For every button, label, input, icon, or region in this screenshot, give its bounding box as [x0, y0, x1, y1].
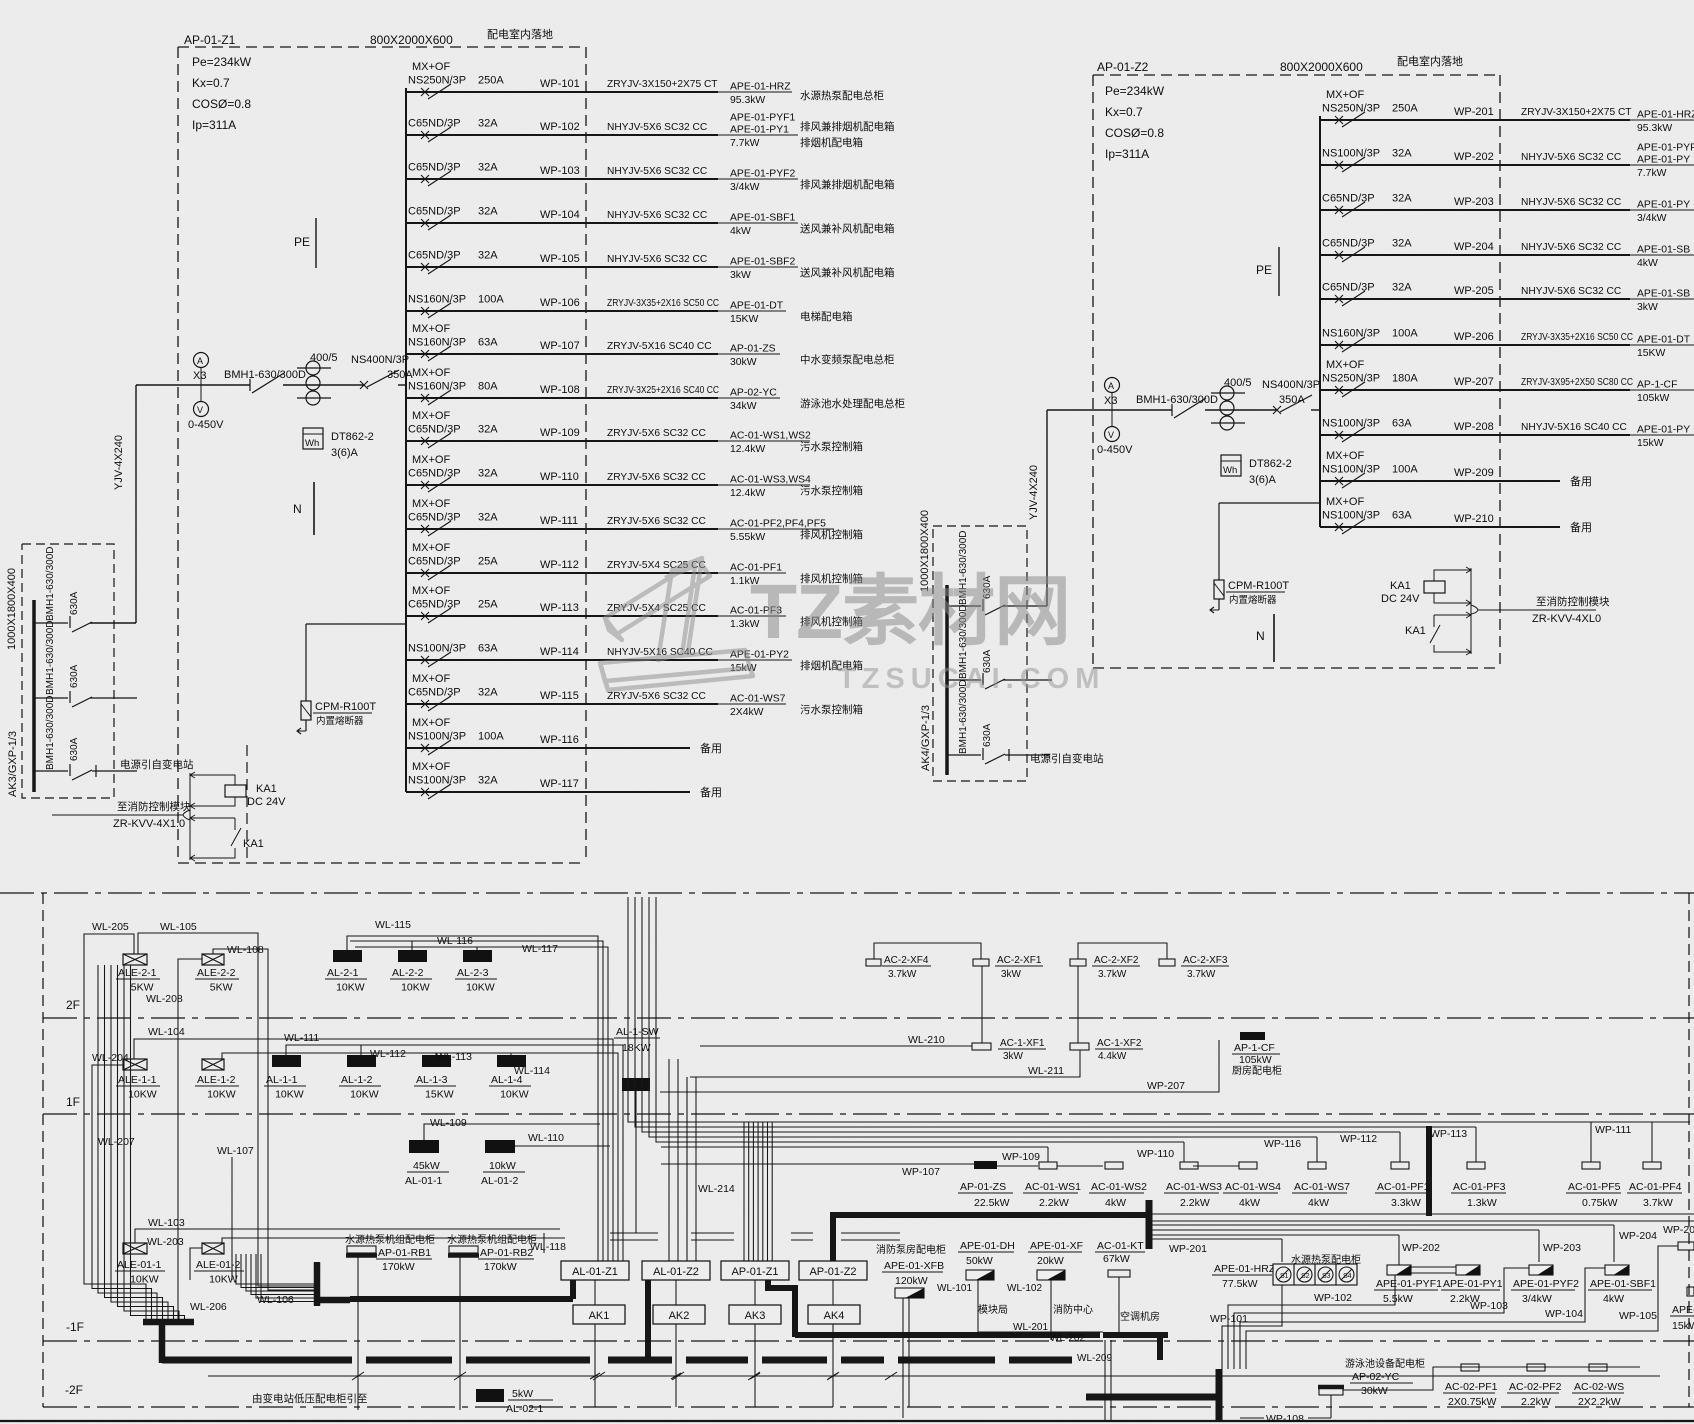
- breaker WP-205: [1335, 295, 1343, 303]
- svg-text:NHYJV-5X6 SC32 CC: NHYJV-5X6 SC32 CC: [607, 254, 707, 265]
- breaker WP-116: [421, 744, 429, 752]
- load box AC-01-PF1: [1391, 1162, 1409, 1169]
- box ALE-01-2: [202, 1243, 224, 1254]
- svg-text:NHYJV-5X6 SC32 CC: NHYJV-5X6 SC32 CC: [607, 122, 707, 133]
- 2F feeder right bends: [540, 936, 598, 1261]
- WP-201 distribution bundle: [1152, 1213, 1694, 1215]
- breaker WP-206: [1335, 341, 1343, 349]
- svg-text:AL-02-1: AL-02-1: [506, 1403, 544, 1415]
- -2F thick bus: [162, 1357, 352, 1364]
- load box AC-02-PF2: [1527, 1364, 1545, 1371]
- svg-text:32A: 32A: [478, 512, 498, 524]
- svg-text:32A: 32A: [478, 468, 498, 480]
- breaker WP-103: [421, 175, 429, 183]
- svg-text:WP-115: WP-115: [540, 690, 579, 702]
- svg-text:APE-01-PYF2: APE-01-PYF2: [1513, 1278, 1579, 1290]
- svg-text:4.4kW: 4.4kW: [1098, 1051, 1127, 1062]
- wire WP-113 run: [661, 1126, 1476, 1128]
- svg-text:APE-01-PY: APE-01-PY: [1637, 200, 1690, 211]
- svg-text:N: N: [293, 502, 302, 516]
- svg-text:Ip=311A: Ip=311A: [1105, 147, 1149, 161]
- riser bundle above AL-01-Z2: [668, 1059, 670, 1261]
- wire WP-104: [406, 222, 718, 224]
- svg-text:C65ND/3P: C65ND/3P: [1322, 238, 1375, 250]
- svg-text:10KW: 10KW: [401, 982, 430, 994]
- svg-text:WP-102: WP-102: [540, 121, 580, 133]
- svg-text:S2: S2: [1301, 1273, 1310, 1280]
- svg-text:NHYJV-5X6 SC32 CC: NHYJV-5X6 SC32 CC: [1521, 197, 1621, 208]
- load box AC-01-WS7: [1308, 1162, 1326, 1169]
- svg-text:备用: 备用: [700, 785, 722, 799]
- load label WP-112: [718, 572, 786, 574]
- box AC-1-XF1: [972, 1043, 991, 1050]
- wire WP-106: [406, 310, 718, 312]
- svg-text:WP-205: WP-205: [1454, 285, 1494, 297]
- wire WP-110: [406, 484, 718, 486]
- svg-text:AL-1-SW: AL-1-SW: [616, 1026, 659, 1038]
- svg-text:NS100N/3P: NS100N/3P: [1322, 148, 1380, 160]
- svg-text:15KW: 15KW: [425, 1089, 454, 1101]
- link PYF1-PY1: [1411, 1267, 1456, 1273]
- wire WP-205: [1320, 298, 1630, 300]
- svg-text:至消防控制模块: 至消防控制模块: [1536, 595, 1610, 608]
- svg-text:WP-113: WP-113: [540, 602, 579, 614]
- wire WP-111 run: [661, 1121, 1690, 1123]
- svg-text:AC-01-WS7: AC-01-WS7: [1294, 1181, 1350, 1193]
- svg-text:ALE-01-2: ALE-01-2: [196, 1259, 241, 1271]
- busbar AP-01-Z1: [405, 88, 407, 792]
- thick bus T x317: [314, 1262, 321, 1306]
- wire WP-110 run: [661, 1141, 1184, 1143]
- svg-text:10KW: 10KW: [209, 1274, 238, 1286]
- fan box APE-01-PYF2: [1529, 1265, 1553, 1275]
- cabinet AK4: [808, 1305, 860, 1324]
- load label WP-111: [718, 528, 834, 530]
- svg-text:MX+OF: MX+OF: [412, 542, 450, 554]
- svg-text:ZRYJV-3X25+2X16 SC40 CC: ZRYJV-3X25+2X16 SC40 CC: [607, 385, 719, 396]
- breaker WP-201: [1335, 116, 1343, 124]
- wire WP-116: [406, 747, 690, 749]
- svg-text:32A: 32A: [1392, 148, 1412, 160]
- cabinet AP-1-CF: [1240, 1032, 1265, 1040]
- svg-text:WL-209: WL-209: [1077, 1353, 1112, 1364]
- thick feed AP-01-Z2 riser WP-201: [830, 1213, 836, 1261]
- svg-text:WP-208: WP-208: [1454, 421, 1494, 433]
- svg-text:630A: 630A: [69, 737, 80, 761]
- main power line from substation: [208, 1375, 1660, 1377]
- svg-text:18KW: 18KW: [622, 1042, 651, 1054]
- thick bus -1F left: [143, 1319, 194, 1326]
- svg-text:1000X1800X400: 1000X1800X400: [6, 568, 18, 650]
- svg-text:AC-01-PF4: AC-01-PF4: [1629, 1181, 1682, 1193]
- svg-text:C65ND/3P: C65ND/3P: [408, 599, 461, 611]
- svg-text:ZRYJV-5X6 SC32 CC: ZRYJV-5X6 SC32 CC: [607, 691, 706, 702]
- svg-text:3kW: 3kW: [1003, 1051, 1024, 1062]
- wire WP-113: [406, 615, 718, 617]
- svg-text:WP-101: WP-101: [1210, 1313, 1248, 1325]
- svg-text:170kW: 170kW: [382, 1261, 415, 1273]
- svg-text:22.5kW: 22.5kW: [974, 1197, 1010, 1209]
- svg-text:CPM-R100T: CPM-R100T: [1228, 580, 1289, 592]
- load label WP-114: [718, 659, 792, 661]
- svg-text:AC-2-XF4: AC-2-XF4: [884, 955, 929, 966]
- wire WP-109 run: [661, 1146, 1048, 1148]
- svg-text:WP-103: WP-103: [1470, 1300, 1508, 1312]
- svg-text:WP-108: WP-108: [540, 384, 580, 396]
- svg-text:NS160N/3P: NS160N/3P: [408, 381, 466, 393]
- load box AC-01-WS3: [1180, 1162, 1198, 1169]
- svg-text:WP-204: WP-204: [1454, 241, 1494, 253]
- 1F feeder right bends: [592, 1039, 613, 1261]
- svg-text:COSØ=0.8: COSØ=0.8: [192, 97, 251, 111]
- svg-text:AP-01-Z1: AP-01-Z1: [731, 1266, 778, 1278]
- double distribution lines between risers: [610, 1232, 658, 1234]
- svg-text:Kx=0.7: Kx=0.7: [1105, 105, 1143, 119]
- breaker WP-105: [421, 263, 429, 271]
- svg-text:WP-210: WP-210: [1454, 513, 1494, 525]
- svg-text:模块局: 模块局: [978, 1304, 1008, 1316]
- svg-text:WL-103: WL-103: [148, 1217, 185, 1229]
- svg-text:10KW: 10KW: [350, 1089, 379, 1101]
- svg-text:3.7kW: 3.7kW: [1643, 1197, 1673, 1209]
- floor line -2F: [43, 1406, 1694, 1408]
- svg-text:AC-01-PF2,PF4,PF5: AC-01-PF2,PF4,PF5: [730, 519, 826, 530]
- load label WP-203: [1630, 209, 1694, 211]
- load box AC-01-WS4: [1239, 1162, 1257, 1169]
- box ALE-1-2: [202, 1059, 224, 1070]
- svg-text:电源引自变电站: 电源引自变电站: [1030, 752, 1104, 765]
- svg-text:WP-104: WP-104: [1545, 1308, 1583, 1320]
- svg-text:WL-117: WL-117: [522, 943, 558, 955]
- svg-text:ZRYJV-3X150+2X75 CT: ZRYJV-3X150+2X75 CT: [1521, 107, 1632, 118]
- fuse CPM-R100T right: [1219, 502, 1320, 504]
- box AP-01-Z1: [721, 1261, 789, 1280]
- svg-text:3.7kW: 3.7kW: [1187, 969, 1216, 980]
- svg-text:NS100N/3P: NS100N/3P: [1322, 418, 1380, 430]
- svg-text:TZ素材网: TZ素材网: [750, 569, 1070, 655]
- svg-text:电梯配电箱: 电梯配电箱: [800, 310, 853, 323]
- svg-text:WL-111: WL-111: [284, 1032, 319, 1044]
- floor line -1F: [43, 1340, 1694, 1342]
- svg-text:WP-106: WP-106: [540, 297, 580, 309]
- svg-text:DT862-2: DT862-2: [1249, 458, 1292, 470]
- wire WP-105: [406, 266, 718, 268]
- watermark logo numeral 1: [600, 558, 753, 690]
- svg-text:WP-110: WP-110: [1137, 1148, 1174, 1160]
- svg-text:32A: 32A: [478, 687, 498, 699]
- svg-text:0.75kW: 0.75kW: [1582, 1197, 1618, 1209]
- svg-text:V: V: [197, 405, 203, 415]
- svg-text:AP-01-Z2: AP-01-Z2: [1097, 60, 1149, 74]
- svg-text:APE-01-PYF2: APE-01-PYF2: [730, 169, 795, 180]
- feeder switch BMH1-630/300D #3 left: [34, 770, 68, 772]
- svg-text:5.55kW: 5.55kW: [730, 532, 765, 543]
- svg-text:3/4kW: 3/4kW: [1522, 1293, 1552, 1305]
- svg-text:N: N: [1256, 629, 1265, 643]
- svg-text:水源热泵机组配电柜: 水源热泵机组配电柜: [345, 1233, 435, 1246]
- wire WP-202 drop: [1398, 1235, 1400, 1265]
- svg-text:WL-102: WL-102: [1007, 1283, 1042, 1294]
- load box AC-02-WS: [1589, 1364, 1607, 1371]
- svg-text:APE-01-HRZ: APE-01-HRZ: [730, 82, 791, 93]
- svg-text:AC-1-XF2: AC-1-XF2: [1097, 1038, 1142, 1049]
- svg-text:WP-111: WP-111: [1595, 1124, 1632, 1136]
- wire AC-02 run: [1343, 1367, 1640, 1390]
- box AC-2-XF1: [973, 959, 989, 966]
- box AC-1-XF2: [1070, 1043, 1089, 1050]
- box AC-2-XF2: [1070, 959, 1086, 966]
- feeder busbar AK3: [32, 600, 36, 792]
- svg-text:MX+OF: MX+OF: [412, 585, 450, 597]
- fan box APE-01-PYF1: [1387, 1265, 1411, 1275]
- svg-text:DC 24V: DC 24V: [1381, 593, 1420, 605]
- svg-text:630A: 630A: [69, 591, 80, 615]
- floor boundary line upper: [0, 892, 1694, 894]
- load box AC-01-PF4: [1643, 1162, 1661, 1169]
- svg-text:污水泵控制箱: 污水泵控制箱: [800, 484, 863, 497]
- svg-text:MX+OF: MX+OF: [412, 61, 450, 73]
- svg-text:34kW: 34kW: [730, 401, 757, 412]
- svg-text:AL-2-3: AL-2-3: [457, 967, 489, 979]
- box ALE-2-1: [123, 954, 147, 965]
- svg-text:WP-201: WP-201: [1169, 1243, 1207, 1255]
- svg-text:WP-204: WP-204: [1619, 1230, 1657, 1242]
- svg-text:AK4: AK4: [824, 1310, 845, 1322]
- svg-text:3kW: 3kW: [1637, 302, 1658, 313]
- svg-text:BMH1-630/300D: BMH1-630/300D: [224, 369, 306, 381]
- svg-text:250A: 250A: [1392, 103, 1418, 115]
- svg-text:WP-105: WP-105: [540, 253, 580, 265]
- voltmeter V right: [1105, 427, 1120, 442]
- wire WP-111: [406, 528, 718, 530]
- wire WP-115: [406, 703, 718, 705]
- breaker WP-108: [421, 394, 429, 402]
- svg-text:3kW: 3kW: [730, 270, 751, 281]
- svg-text:APE-01-HRZ: APE-01-HRZ: [1637, 110, 1694, 121]
- svg-text:WP-203: WP-203: [1454, 196, 1494, 208]
- box AL-1-4: [497, 1055, 526, 1067]
- svg-text:配电室内落地: 配电室内落地: [487, 27, 553, 41]
- svg-text:2.2kW: 2.2kW: [1039, 1197, 1069, 1209]
- svg-text:污水泵控制箱: 污水泵控制箱: [800, 440, 863, 453]
- wire WP-209: [1320, 480, 1560, 482]
- svg-text:4kW: 4kW: [1637, 258, 1658, 269]
- svg-text:WL-116: WL-116: [437, 935, 473, 947]
- svg-text:20kW: 20kW: [1037, 1255, 1064, 1267]
- svg-text:AK3/GXP-1/3: AK3/GXP-1/3: [7, 731, 19, 797]
- svg-text:4kW: 4kW: [1239, 1197, 1260, 1209]
- load label WP-208: [1630, 434, 1694, 436]
- ammeter A X3 right: [1105, 378, 1120, 393]
- svg-text:AC-01-PF1: AC-01-PF1: [1377, 1181, 1430, 1193]
- svg-text:APE-01-PY1: APE-01-PY1: [1443, 1278, 1503, 1290]
- wire WP-108: [406, 397, 718, 399]
- svg-text:2F: 2F: [66, 998, 80, 1012]
- wire WP-204: [1320, 254, 1630, 256]
- svg-text:NS100N/3P: NS100N/3P: [408, 775, 466, 787]
- breaker WP-112: [421, 569, 429, 577]
- load label WP-108: [718, 397, 780, 399]
- svg-text:WL-207: WL-207: [98, 1136, 135, 1148]
- svg-text:由变电站低压配电柜引至: 由变电站低压配电柜引至: [252, 1392, 368, 1405]
- svg-text:污水泵控制箱: 污水泵控制箱: [800, 703, 863, 716]
- load box AP-01-ZS: [974, 1161, 997, 1169]
- box AL-1-2: [347, 1055, 376, 1067]
- breaker WP-110: [421, 481, 429, 489]
- svg-text:MX+OF: MX+OF: [412, 761, 450, 773]
- svg-text:63A: 63A: [1392, 510, 1412, 522]
- svg-text:AC-01-WS1: AC-01-WS1: [1025, 1181, 1081, 1193]
- svg-text:APE-01-DH: APE-01-DH: [960, 1240, 1015, 1252]
- svg-text:400/5: 400/5: [1224, 377, 1252, 389]
- svg-text:Wh: Wh: [1223, 465, 1237, 476]
- svg-text:AL-01-2: AL-01-2: [481, 1175, 519, 1187]
- feeder switch BMH1-630/300D #1 left: [34, 622, 68, 624]
- drawing bottom edge: [0, 1420, 1694, 1422]
- left riser elbows to -1F bus: [84, 1280, 146, 1320]
- svg-text:APE-01-XF: APE-01-XF: [1030, 1240, 1083, 1252]
- svg-text:32A: 32A: [478, 250, 498, 262]
- left riser wire bundle: [97, 965, 99, 1280]
- load label WP-106: [718, 310, 786, 312]
- svg-text:AP-01-Z1: AP-01-Z1: [184, 33, 236, 47]
- svg-text:4kW: 4kW: [1603, 1293, 1624, 1305]
- feeder switch BMH1-630/300D #2 left: [34, 697, 68, 699]
- svg-text:10KW: 10KW: [207, 1089, 236, 1101]
- breaker WP-210: [1335, 523, 1343, 531]
- svg-text:630A: 630A: [982, 723, 993, 747]
- wire WP-107 run: [661, 1163, 974, 1165]
- svg-text:MX+OF: MX+OF: [1326, 496, 1364, 508]
- wire WP-210: [1320, 526, 1560, 528]
- ammeter A X3: [194, 353, 209, 368]
- svg-text:WP-110: WP-110: [540, 471, 579, 483]
- svg-text:MX+OF: MX+OF: [412, 367, 450, 379]
- svg-text:AL-1-1: AL-1-1: [266, 1074, 298, 1086]
- svg-text:105kW: 105kW: [1239, 1054, 1272, 1066]
- wire to fire control module left: [52, 814, 183, 816]
- box AL-01-2: [485, 1140, 515, 1153]
- svg-text:WL-104: WL-104: [148, 1026, 185, 1038]
- svg-text:WL-107: WL-107: [217, 1145, 254, 1157]
- svg-text:10KW: 10KW: [500, 1089, 529, 1101]
- svg-text:NS250N/3P: NS250N/3P: [408, 75, 466, 87]
- svg-text:WP-101: WP-101: [540, 78, 580, 90]
- svg-text:95.3kW: 95.3kW: [1637, 123, 1672, 134]
- load label WP-113: [718, 615, 786, 617]
- wire WP-208: [1320, 434, 1630, 436]
- svg-text:DC 24V: DC 24V: [247, 796, 286, 808]
- breaker WP-208: [1335, 431, 1343, 439]
- svg-text:Pe=234kW: Pe=234kW: [192, 55, 252, 69]
- fuse CPM-R100T left: [306, 623, 406, 625]
- box AC-2-XF3: [1159, 959, 1175, 966]
- svg-text:内置熔断器: 内置熔断器: [1229, 594, 1277, 606]
- svg-text:AK1: AK1: [589, 1310, 610, 1322]
- svg-text:送风兼补风机配电箱: 送风兼补风机配电箱: [800, 266, 895, 279]
- svg-text:32A: 32A: [1392, 238, 1412, 250]
- svg-text:WP-209: WP-209: [1454, 467, 1494, 479]
- wire WP-204 drop: [1613, 1225, 1615, 1262]
- wire WP-103: [406, 178, 718, 180]
- wire WP-112: [406, 572, 718, 574]
- svg-text:3(6)A: 3(6)A: [1249, 474, 1277, 486]
- breaker WP-111: [421, 525, 429, 533]
- svg-text:10KW: 10KW: [128, 1089, 157, 1101]
- svg-text:32A: 32A: [1392, 193, 1412, 205]
- breaker WP-203: [1335, 206, 1343, 214]
- svg-text:WL-118: WL-118: [530, 1241, 566, 1253]
- svg-text:C65ND/3P: C65ND/3P: [408, 424, 461, 436]
- cabinet AK2: [653, 1305, 705, 1324]
- svg-text:WL-214: WL-214: [698, 1183, 735, 1195]
- svg-text:APE-01-XFB: APE-01-XFB: [884, 1260, 944, 1272]
- breaker WP-114: [421, 656, 429, 664]
- svg-text:15KW: 15KW: [1637, 348, 1665, 359]
- incoming main wire AP-01-Z2: [1047, 409, 1172, 411]
- svg-text:NS400N/3P: NS400N/3P: [1262, 379, 1320, 391]
- wire WP-116 run: [661, 1136, 1317, 1138]
- box AL-1-3: [422, 1055, 451, 1067]
- svg-text:排风机控制箱: 排风机控制箱: [800, 528, 863, 541]
- svg-text:ZRYJV-5X6 SC32 CC: ZRYJV-5X6 SC32 CC: [607, 516, 706, 527]
- svg-text:AC-01-PF5: AC-01-PF5: [1568, 1181, 1621, 1193]
- left border dashed: [42, 893, 44, 1407]
- svg-text:4kW: 4kW: [1308, 1197, 1329, 1209]
- panel AP-01-Z1 enclosure (dashed): [178, 46, 586, 48]
- svg-text:120kW: 120kW: [895, 1275, 928, 1287]
- svg-text:-2F: -2F: [65, 1383, 83, 1397]
- svg-text:WP-201: WP-201: [1454, 106, 1494, 118]
- svg-text:-1F: -1F: [66, 1320, 84, 1334]
- svg-text:3.7kW: 3.7kW: [888, 969, 917, 980]
- svg-text:MX+OF: MX+OF: [1326, 450, 1364, 462]
- breaker WP-117: [421, 788, 429, 796]
- svg-text:C65ND/3P: C65ND/3P: [408, 512, 461, 524]
- svg-text:C65ND/3P: C65ND/3P: [1322, 193, 1375, 205]
- svg-text:C65ND/3P: C65ND/3P: [408, 687, 461, 699]
- svg-text:800X2000X600: 800X2000X600: [1280, 60, 1363, 74]
- relay KA1 coil wires left: [196, 775, 235, 785]
- svg-text:TZSUCAI.COM: TZSUCAI.COM: [838, 663, 1105, 695]
- wire WP-101: [406, 91, 718, 93]
- svg-text:63A: 63A: [478, 643, 498, 655]
- svg-text:厨房配电柜: 厨房配电柜: [1232, 1064, 1282, 1077]
- svg-text:0-450V: 0-450V: [1097, 444, 1133, 456]
- svg-text:C65ND/3P: C65ND/3P: [408, 118, 461, 130]
- svg-text:AP-01-Z2: AP-01-Z2: [809, 1266, 856, 1278]
- svg-text:ZRYJV-5X6 SC32 CC: ZRYJV-5X6 SC32 CC: [607, 472, 706, 483]
- load label WP-103: [718, 178, 798, 180]
- svg-text:APE-01-SB: APE-01-SB: [1637, 289, 1690, 300]
- svg-text:30kW: 30kW: [1361, 1385, 1388, 1397]
- svg-text:7.7kW: 7.7kW: [1637, 168, 1667, 179]
- svg-text:AP-01-ZS: AP-01-ZS: [730, 344, 776, 355]
- svg-text:备用: 备用: [700, 741, 722, 755]
- svg-text:A: A: [1108, 381, 1114, 391]
- svg-text:WP-103: WP-103: [540, 165, 580, 177]
- svg-text:ALE-1-2: ALE-1-2: [197, 1074, 236, 1086]
- svg-text:BMH1-630/300D: BMH1-630/300D: [45, 621, 56, 695]
- panel AP-01-Z1 lower partition dashes: [246, 745, 248, 863]
- load label WP-115: [718, 703, 786, 705]
- svg-text:A: A: [197, 356, 203, 366]
- svg-text:100A: 100A: [1392, 328, 1418, 340]
- svg-text:AK4/GXP-1/3: AK4/GXP-1/3: [920, 705, 932, 771]
- svg-text:ALE-01-1: ALE-01-1: [117, 1259, 162, 1271]
- wire feeder to riser: [90, 622, 136, 624]
- svg-text:NHYJV-5X6 SC32 CC: NHYJV-5X6 SC32 CC: [607, 210, 707, 221]
